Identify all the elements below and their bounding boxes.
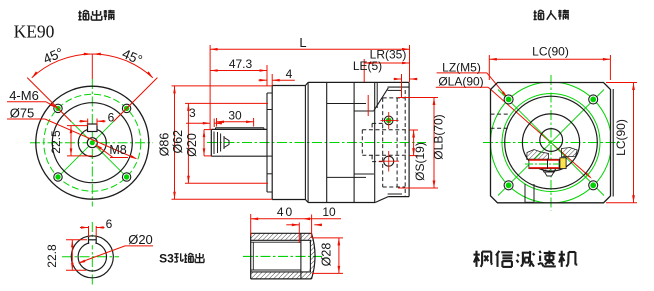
svg-text:S3: S3 bbox=[159, 252, 174, 266]
svg-text:4: 4 bbox=[286, 67, 293, 81]
svg-text:LE(5): LE(5) bbox=[353, 59, 382, 73]
svg-text:10: 10 bbox=[322, 205, 336, 219]
svg-text:LC(90): LC(90) bbox=[614, 119, 628, 156]
svg-text:6: 6 bbox=[108, 111, 115, 125]
svg-text:Ø20: Ø20 bbox=[128, 232, 153, 247]
svg-text:L: L bbox=[299, 35, 306, 50]
svg-text:22.8: 22.8 bbox=[45, 244, 59, 268]
svg-text:6: 6 bbox=[106, 217, 113, 231]
svg-text:47.3: 47.3 bbox=[229, 57, 253, 71]
svg-text:30: 30 bbox=[228, 109, 242, 123]
svg-text:40: 40 bbox=[277, 205, 294, 219]
svg-text:ØS(19): ØS(19) bbox=[413, 142, 427, 181]
svg-text:4-M6: 4-M6 bbox=[9, 88, 39, 103]
svg-text:3: 3 bbox=[189, 106, 196, 120]
svg-text:Ø86: Ø86 bbox=[157, 133, 171, 157]
svg-text:KE90: KE90 bbox=[14, 22, 55, 42]
svg-text:M8: M8 bbox=[109, 143, 126, 157]
svg-text:22.5: 22.5 bbox=[49, 130, 63, 154]
svg-text:Ø75: Ø75 bbox=[10, 106, 35, 121]
svg-text:ØLB(70): ØLB(70) bbox=[432, 114, 446, 159]
svg-text:Ø28: Ø28 bbox=[320, 243, 334, 267]
svg-text:Ø20: Ø20 bbox=[185, 133, 199, 157]
svg-text:Ø62: Ø62 bbox=[171, 130, 185, 154]
svg-text:LC(90): LC(90) bbox=[532, 45, 569, 59]
svg-text:ØLA(90): ØLA(90) bbox=[438, 75, 483, 89]
